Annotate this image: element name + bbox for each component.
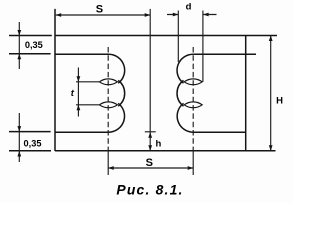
arrowhead d left (points right) [173,13,179,17]
arrowhead bottom S right [188,166,194,170]
t extension ticks [76,82,100,105]
left blank scallop arc 2 [118,80,124,106]
arrowhead d right (points left) [203,13,209,17]
strip top edge left extension [9,35,52,37]
bottom S extension right (below strip) [192,151,194,175]
strip right end edge [245,36,247,152]
arrowhead t down [77,76,81,82]
right blank scallop arc 3 [177,103,193,132]
left blank top edge [55,53,109,55]
vertical S/h extension line x=150 [149,9,151,132]
left blank bottom edge [55,131,109,133]
right blank bottom edge [193,131,246,133]
left blank scallop arc 3 [109,103,125,132]
arrowhead H down [269,145,273,151]
d dimension outside-arrow tails [167,14,217,16]
0,35 bottom dimension line [18,113,20,162]
right blank top edge [193,53,256,55]
centerline right blank (dashed) [192,47,194,151]
bridge lens right-top [184,79,202,85]
svg-text:Рис. 8.1.: Рис. 8.1. [116,182,183,198]
0,35 top dimension line [18,22,20,69]
strip bottom edge left extension [9,150,51,152]
arrowhead h down [148,145,152,151]
right blank scallop arc 1 [177,54,193,83]
arrowhead h up [148,132,152,138]
left blank bottom edge stub (0,35 extension) [9,131,51,133]
d extension line right [202,11,204,82]
arrowhead 0,35 top up [17,54,21,60]
svg-text:d: d [186,1,192,12]
bridge lens left-bottom [99,102,117,108]
arrowhead 0,35 bottom down [17,126,21,132]
H dimension line [270,36,272,151]
svg-text:0,35: 0,35 [25,40,43,50]
arrowhead top S right [145,13,151,17]
bottom S dimension line [108,167,193,169]
arrowhead t up [77,105,81,111]
h dimension line [149,132,151,151]
d extension line left [177,11,179,63]
svg-text:H: H [276,95,283,106]
right blank scallop arc 2 [177,80,183,106]
svg-text:h: h [155,139,161,150]
left blank scallop arc 1 [109,54,125,83]
strip top edge [55,35,277,37]
bottom S extension left (below strip) [107,151,109,175]
bridge lens left-top [99,79,117,85]
bridge lens right-bottom [184,102,202,108]
arrowhead 0,35 bottom up [17,151,21,157]
arrowhead bottom S left [108,166,114,170]
svg-text:t: t [71,88,75,99]
arrowhead H up [269,36,273,42]
centerline left blank (dashed) [107,47,109,151]
arrowhead 0,35 top down [17,30,21,36]
arrowhead top S left [56,13,62,17]
svg-text:S: S [146,157,153,169]
strip bottom edge [55,150,276,152]
strip left edge / top S extension [54,9,56,151]
t dimension line [77,68,79,117]
left blank top edge stub (0,35 extension) [9,53,51,55]
top S dimension line [56,14,151,16]
h extension tick [145,131,156,133]
svg-text:S: S [96,3,103,15]
svg-text:0,35: 0,35 [24,139,42,149]
